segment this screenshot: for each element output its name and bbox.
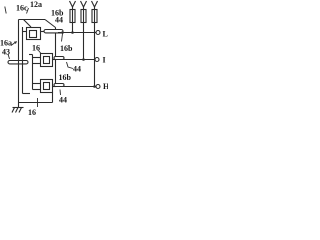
svg-text:I: I <box>103 56 106 65</box>
wire up to gate 16 bottom <box>52 93 54 103</box>
leader 12a <box>27 8 29 14</box>
svg-text:L: L <box>103 30 108 39</box>
wire output column vertical <box>55 28 57 87</box>
leader 44 mid <box>67 62 74 69</box>
resistor 44 top <box>44 30 63 33</box>
gate 16b middle box <box>41 54 53 67</box>
leader 16c <box>5 7 6 14</box>
svg-text:16b: 16b <box>60 44 73 53</box>
leader 16 bottom <box>37 98 39 107</box>
wire diagonal down to output column <box>45 20 56 28</box>
wire output line I <box>56 59 95 61</box>
svg-text:44: 44 <box>59 96 67 105</box>
bus line right vertical <box>22 27 24 94</box>
svg-text:16c: 16c <box>16 4 28 13</box>
pull-up resistor 1 <box>70 1 73 7</box>
resistor 43 horizontal <box>8 61 28 64</box>
wire bottom horizontal <box>19 102 53 104</box>
terminal L <box>96 31 100 35</box>
node r3-H <box>93 85 96 88</box>
node wire-L <box>61 31 64 34</box>
node r1-L <box>71 31 74 34</box>
terminal H <box>96 85 100 89</box>
leader 16a arrow <box>11 42 17 46</box>
wire top horizontal <box>19 19 46 21</box>
svg-text:H: H <box>103 82 108 91</box>
input vertical wire <box>32 55 34 90</box>
bus line 16a left vertical <box>18 20 20 103</box>
svg-text:44: 44 <box>73 65 81 74</box>
leader 16b mid <box>62 34 63 42</box>
wire bus bend right <box>23 93 31 95</box>
node r2-I <box>82 58 85 61</box>
terminal I <box>95 58 99 62</box>
wire diagonal into gate 16c <box>24 20 32 28</box>
resistor 44 lower <box>54 84 64 87</box>
leader 43 <box>8 54 10 59</box>
gate 16b lower box <box>41 80 53 93</box>
pull-up resistor 2 <box>81 1 84 7</box>
pull-up resistor 3 <box>92 1 95 7</box>
leader 16 small <box>39 51 42 54</box>
gate 16c box <box>27 28 41 40</box>
svg-text:12a: 12a <box>30 0 42 9</box>
svg-text:16a: 16a <box>0 39 12 48</box>
wire output line L <box>58 32 96 34</box>
ground <box>18 103 20 108</box>
svg-text:43: 43 <box>2 48 10 57</box>
svg-text:16: 16 <box>32 44 40 53</box>
svg-text:16: 16 <box>28 108 36 117</box>
leader 44 lower <box>59 90 62 96</box>
resistor 44 middle <box>54 57 64 60</box>
wire output line H <box>56 86 96 88</box>
svg-text:44: 44 <box>55 16 63 25</box>
svg-text:16b: 16b <box>59 73 72 82</box>
